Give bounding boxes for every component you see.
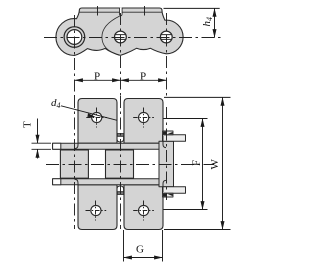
dimension F extension line, upper [164,118,208,120]
centerline: pin2 axis, plan view [120,96,122,229]
bush on pin1 (inner circle) [67,30,82,45]
bend relief hook at pin3, upper [163,136,166,148]
attachment hole d4, upper left flange [92,112,102,122]
roller 2 (plan view) [106,150,134,178]
centerline: pin1 vertical [74,15,76,96]
pin2 protruding end cap, upper [117,134,123,137]
dimension W line with arrows [222,97,224,229]
notch between adjacent attachment flanges [120,8,123,16]
leader arrowhead at hole rim [87,113,96,117]
dimension F extension line, lower [164,209,208,211]
bend relief hook at pin1, upper [75,136,79,149]
svg-text:P: P [140,70,146,82]
attachment hole, lower left flange [91,205,101,215]
rear link plate end arc around pin2 [102,16,120,55]
bend relief hook at pin1, lower [75,179,79,192]
svg-text:G: G [136,244,144,256]
roller on pin1 (outer circle) [64,27,85,48]
dimension T extension line, plate bottom face [32,148,52,150]
dimension h4 line with arrows [214,8,216,37]
leader line for d4 [61,106,117,121]
chain link plates with bent K-1 attachment, side view silhouette [56,8,183,56]
centerline: chain axis, side view [44,37,222,39]
centerline: pin2 vertical [120,13,122,96]
attachment hole, upper right flange [139,112,149,122]
dimension T extension line, plate top face [32,142,52,144]
bend relief hook at pin3, lower [163,180,166,192]
lower link plate, edge view strip [53,179,163,185]
dimension G line with arrows [124,257,163,259]
dimension G extension line, right [162,230,164,262]
crosshair: hole lower right [133,201,154,221]
lower link plate protruding end (hollow) [53,179,61,185]
dimension W extension line, upper [164,96,231,98]
attachment flange K-1, lower right [124,185,163,230]
svg-text:W: W [209,159,221,170]
pin2 protruding end cap, lower [117,192,123,195]
centerline: pin3 vertical [166,13,168,96]
pin2 rivet chord marks [115,35,126,40]
svg-text:T: T [22,121,34,128]
dimension F line with arrows [202,119,204,210]
dimension h4 extension line (top of attachment) [164,7,220,9]
pin3 riveted end, lower [163,193,174,197]
crosshair: hole upper right [133,108,154,128]
dimension T lower arrow [37,149,39,158]
dimension P line pin2-pin3 [121,79,167,81]
attachment flange K-1, upper left, with hole [78,99,117,144]
dimension W extension line, lower [164,229,231,231]
upper link plate protruding end (hollow) [53,143,61,149]
centerline: pin1 axis, plan view [74,96,76,229]
attachment hole axis tick, flange 2 [144,6,146,16]
roller 1 (plan view) [60,150,88,178]
pin3 rivet chord marks [161,35,172,40]
next link pin plate stub, lower [163,187,186,194]
crosshair: hole upper left [86,108,107,128]
pin3 bushing column (next link) [159,141,174,186]
attachment flange K-1, lower left [78,185,117,230]
bend relief U between flanges at pin2, lower [117,186,124,192]
pin3 riveted end, upper [163,131,174,135]
crosshair: hole lower left [86,201,107,221]
dimension T upper arrow [37,119,39,144]
dimension P line pin1-pin2 [75,79,121,81]
dimension G extension line, left [123,230,125,262]
attachment hole, lower right flange [139,205,149,215]
svg-text:F: F [191,160,203,166]
centerline: chain axis, plan view [46,164,214,166]
centerline: pin3 axis, plan view [166,107,168,200]
svg-text:P: P [94,70,100,82]
pin2 riveted end circle [115,31,127,43]
attachment top flange bottom edge line [79,11,162,13]
attachment hole axis tick, flange 1 [97,6,99,16]
attachment flange K-1, upper right [124,99,163,144]
upper link plate, edge view strip [53,143,163,149]
next link pin plate stub, upper [163,135,186,142]
pin3 riveted end circle [160,31,172,43]
bend relief U between flanges at pin2, upper [117,136,124,142]
